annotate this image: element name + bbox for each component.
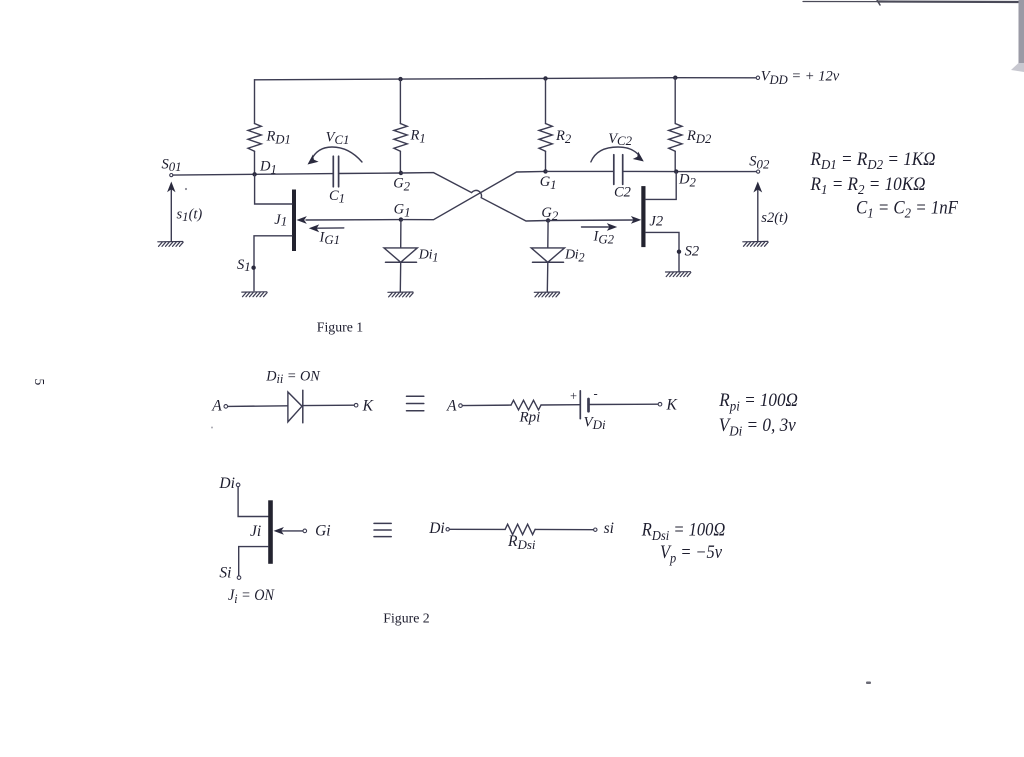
node G2 left bbox=[399, 171, 403, 175]
svg-text:Figure 2: Figure 2 bbox=[383, 611, 429, 626]
ground under s1 bbox=[158, 242, 183, 247]
wire RDsi to si bbox=[535, 528, 594, 530]
resistor RD1 bbox=[248, 80, 291, 175]
svg-text:D1: D1 bbox=[259, 158, 277, 176]
svg-text:RD2: RD2 bbox=[686, 128, 712, 146]
transistor J1 bbox=[254, 174, 296, 290]
scan artifact right edge band bbox=[1011, 0, 1024, 72]
svg-text:R1: R1 bbox=[410, 128, 426, 146]
wire diode to K bbox=[303, 404, 354, 406]
source arrow s2(t) bbox=[753, 182, 788, 242]
svg-text:IG1: IG1 bbox=[319, 229, 340, 247]
equivalence sign bottom bbox=[374, 523, 391, 536]
capacitor C2 bbox=[614, 155, 631, 201]
wire Di to bar bbox=[238, 487, 268, 517]
svg-text:si: si bbox=[604, 520, 614, 537]
resistor Rpi bbox=[511, 400, 541, 410]
resistor RD2 bbox=[669, 78, 712, 172]
terminal S01 bbox=[170, 174, 173, 177]
svg-text:S2: S2 bbox=[685, 244, 700, 260]
svg-text:G1: G1 bbox=[394, 202, 411, 220]
svg-text:Vp = −5v: Vp = −5v bbox=[660, 543, 723, 567]
svg-text:J2: J2 bbox=[649, 214, 663, 230]
svg-text:Si: Si bbox=[219, 564, 231, 581]
svg-text:Rpi = 100Ω: Rpi = 100Ω bbox=[718, 391, 798, 415]
node S1 bbox=[251, 266, 255, 270]
svg-text:Gi: Gi bbox=[315, 523, 331, 540]
svg-text:Ji: Ji bbox=[250, 523, 261, 540]
svg-text:Dii = ON: Dii = ON bbox=[265, 368, 320, 386]
svg-text:C2: C2 bbox=[614, 184, 631, 200]
terminal S02 bbox=[757, 170, 760, 173]
svg-text:G1: G1 bbox=[540, 174, 557, 192]
svg-text:Di2: Di2 bbox=[564, 248, 584, 265]
svg-text:IG2: IG2 bbox=[593, 229, 615, 247]
svg-text:Di: Di bbox=[218, 475, 235, 492]
node G1 left bbox=[399, 217, 403, 221]
svg-text:Rpi: Rpi bbox=[519, 410, 541, 426]
capacitor C1 bbox=[329, 156, 345, 205]
arrow arc VC1 bbox=[308, 147, 363, 165]
diode Di2 bbox=[531, 221, 584, 293]
svg-text:Di1: Di1 bbox=[418, 248, 438, 265]
svg-text:A: A bbox=[211, 398, 222, 415]
svg-text:s2(t): s2(t) bbox=[761, 210, 788, 226]
svg-text:Di: Di bbox=[428, 520, 445, 537]
svg-text:VDD = + 12v: VDD = + 12v bbox=[761, 69, 840, 87]
svg-text:RDsi = 100Ω: RDsi = 100Ω bbox=[641, 521, 725, 545]
node rail-R1 junction bbox=[398, 77, 402, 81]
wire Rpi to battery bbox=[541, 404, 580, 406]
terminal K bbox=[354, 403, 358, 407]
terminal K equivalent bbox=[658, 402, 662, 406]
battery VDi bbox=[570, 387, 606, 433]
resistor R1 bbox=[394, 79, 426, 173]
wire Di to RDsi bbox=[450, 528, 506, 530]
node G2 right bbox=[546, 218, 550, 222]
svg-text:VDi: VDi bbox=[584, 415, 607, 433]
svg-text:R1 = R2 = 10KΩ: R1 = R2 = 10KΩ bbox=[810, 175, 926, 198]
node rail-RD2 junction bbox=[673, 76, 677, 80]
svg-text:RD1 = RD2 = 1KΩ: RD1 = RD2 = 1KΩ bbox=[810, 150, 936, 173]
svg-text:VC1: VC1 bbox=[326, 130, 350, 147]
ground under S2 bbox=[666, 272, 691, 277]
ground under s2 bbox=[743, 241, 768, 246]
svg-text:-: - bbox=[594, 387, 598, 401]
ground under Di1 bbox=[388, 292, 413, 297]
gate Gi wire bbox=[282, 530, 303, 532]
scan artifact top edge line bbox=[803, 0, 1024, 5]
svg-text:S01: S01 bbox=[162, 157, 182, 175]
scan speck below A bbox=[211, 427, 213, 429]
wire A to diode bbox=[228, 405, 288, 408]
arrow arc VC2 bbox=[591, 147, 644, 162]
resistor RDsi bbox=[505, 524, 535, 534]
arrow IG1 bbox=[317, 227, 344, 229]
svg-text:Ji = ON: Ji = ON bbox=[228, 587, 276, 606]
terminal si bbox=[594, 528, 597, 531]
node S2 bbox=[677, 250, 681, 254]
svg-text:J1: J1 bbox=[274, 212, 287, 229]
resistor R2 bbox=[539, 78, 572, 171]
svg-text:K: K bbox=[666, 397, 678, 414]
wire J2 gate from G2 bbox=[548, 219, 633, 222]
svg-text:S1: S1 bbox=[237, 257, 251, 274]
scan speck near s1 arrow bbox=[185, 188, 187, 190]
ground under Di2 bbox=[534, 292, 559, 297]
svg-text:VDi = 0, 3v: VDi = 0, 3v bbox=[719, 416, 797, 440]
wire J1 gate from G1 bbox=[306, 219, 401, 221]
svg-text:C1 = C2 = 1nF: C1 = C2 = 1nF bbox=[856, 199, 959, 222]
terminal VDD bbox=[756, 76, 759, 79]
source Si wire bbox=[239, 547, 269, 576]
svg-text:C1: C1 bbox=[329, 188, 345, 205]
wire S01 to C1 bbox=[173, 174, 333, 176]
svg-text:5: 5 bbox=[32, 379, 47, 386]
wire A to Rpi bbox=[462, 404, 511, 407]
wire G2 cross down to J2 gate with hop bbox=[401, 173, 548, 221]
equivalence sign top bbox=[407, 396, 424, 410]
svg-text:R2: R2 bbox=[555, 128, 572, 146]
transistor Ji bbox=[268, 500, 273, 564]
node D2 bbox=[674, 169, 678, 173]
wire C2 to D2 to S02 bbox=[623, 170, 757, 172]
scan speck lower right bbox=[866, 682, 871, 685]
node rail-R2 junction bbox=[543, 76, 547, 80]
wire G1 right to C2 bbox=[546, 170, 614, 172]
svg-text:+: + bbox=[570, 389, 577, 403]
svg-text:Figure 1: Figure 1 bbox=[317, 319, 363, 334]
svg-text:RD1: RD1 bbox=[266, 128, 291, 146]
arrow IG2 bbox=[582, 226, 610, 228]
diode Di1 bbox=[384, 220, 438, 292]
node D1 bbox=[252, 172, 256, 176]
source arrow s1(t) bbox=[167, 182, 202, 242]
transistor J2 bbox=[641, 172, 679, 272]
svg-text:s1(t): s1(t) bbox=[177, 206, 203, 224]
svg-text:VC2: VC2 bbox=[608, 131, 632, 148]
wire VDD top rail bbox=[255, 78, 757, 80]
svg-text:K: K bbox=[362, 398, 374, 415]
node G1 right bbox=[543, 169, 547, 173]
wire battery to K bbox=[589, 403, 658, 405]
diode Dii bbox=[288, 390, 303, 423]
wire C1 to G2 bbox=[339, 172, 401, 175]
svg-text:RDsi: RDsi bbox=[507, 533, 536, 552]
wire G1 right cross up to J1 gate bbox=[401, 171, 546, 219]
svg-text:G2: G2 bbox=[393, 176, 410, 194]
svg-text:S02: S02 bbox=[749, 154, 770, 172]
svg-text:A: A bbox=[446, 397, 457, 414]
ground under S1 bbox=[242, 292, 267, 297]
svg-text:D2: D2 bbox=[678, 171, 696, 189]
